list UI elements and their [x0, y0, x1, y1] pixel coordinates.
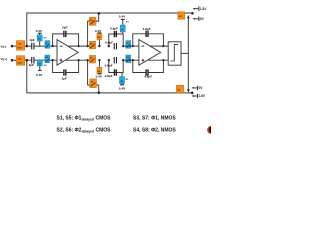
wire S5a right stub up to top rail — [96, 13, 99, 21]
svg-text:1.8V: 1.8V — [200, 7, 207, 11]
wire branch split bottom — [109, 60, 123, 72]
svg-text:0.8pF: 0.8pF — [105, 74, 113, 78]
node dot output top — [191, 12, 194, 15]
wire A2 top feedback loop — [133, 34, 146, 46]
switch S8a series NMOS on rail2 — [45, 55, 50, 63]
arrowhead down at bottom node — [187, 89, 190, 92]
power 0.4V terminal bottom-left — [38, 69, 42, 71]
switch S6a series CMOS on rail1 — [89, 41, 95, 49]
wire S5b right stub down to bottom rail — [97, 85, 99, 93]
node dot loop2 bottom right — [162, 59, 164, 61]
switch S2 (CMOS, phi2d) — [16, 56, 25, 66]
decorative corner blob — [207, 126, 215, 134]
svg-text:4pF: 4pF — [29, 38, 35, 42]
node dot loop2 bottom left — [132, 59, 134, 61]
node B junction dot (bottom input node) — [26, 59, 29, 62]
wire A1 out- to stage2 — [66, 59, 89, 61]
annotation arrow 1.8V top — [193, 7, 208, 11]
node dot output bottom — [191, 92, 194, 95]
switch to 0.4V mid top (CMOS) — [97, 33, 102, 46]
svg-text:0.8pF: 0.8pF — [105, 41, 113, 45]
power 0.4V terminal mid bottom — [97, 73, 101, 75]
capacitor 0.8pF on rail2 — [114, 57, 116, 63]
arrowhead up at top node — [187, 15, 190, 18]
svg-text:4pF: 4pF — [29, 63, 35, 67]
switch S5 DAC top (CMOS) — [178, 12, 185, 20]
switch S1 (CMOS, phi1d) — [16, 41, 25, 51]
svg-text:0.4V: 0.4V — [95, 29, 102, 33]
wire S5b left stub up to rail2 — [88, 60, 90, 85]
node dot loop1 bottom right — [77, 59, 79, 61]
wire A2 bottom feedback loop — [133, 60, 146, 72]
annotation arrow 1.8V bottom — [191, 94, 206, 98]
wire A2 out+ to comparator — [150, 45, 169, 47]
svg-text:2pF: 2pF — [62, 25, 68, 29]
svg-text:0.4V: 0.4V — [36, 73, 43, 77]
node dot rail1 at x86.6 — [86, 45, 88, 47]
power 0.4V terminal bottom mid — [120, 84, 124, 86]
wire A2 out- to comparator — [148, 59, 168, 61]
svg-text:1.8V: 1.8V — [199, 94, 206, 98]
node VI(-) input dot — [11, 45, 14, 48]
node dot rail2 at x99.4 — [98, 59, 100, 61]
switch S6 DAC bottom (CMOS) — [176, 85, 184, 93]
wire comparator output — [181, 52, 188, 54]
svg-text:4.8pF: 4.8pF — [144, 74, 152, 78]
switch S4 (NMOS, phi2, to 0.4V) — [37, 60, 42, 70]
capacitor 2pF top integrating cap — [64, 31, 66, 37]
switch S8b (NMOS to 0.4V, bottom mid) — [120, 73, 125, 85]
svg-text:0.4V: 0.4V — [36, 29, 43, 33]
node dot branch split rail2 left — [108, 59, 110, 61]
svg-text:0.4V: 0.4V — [119, 86, 126, 90]
power 0.4V terminal top mid — [121, 18, 125, 20]
wire A1 out+ to stage2 — [68, 45, 90, 47]
wire A1 bottom feedback loop — [53, 60, 64, 72]
node dot loop1 top left — [51, 45, 53, 47]
node dot branch rejoin rail1 right — [122, 45, 124, 47]
svg-text:Φ2d: Φ2d — [18, 62, 23, 65]
capacitor 0.8pF on rail1 — [114, 43, 116, 49]
switch to 0.4V mid bottom (CMOS) — [97, 60, 102, 74]
capacitor 4pF bottom sampling cap — [32, 57, 34, 64]
switch S7a series NMOS on rail1 — [45, 41, 50, 49]
wire rail1 S1 to opamp A1 — [25, 45, 57, 47]
op-amp A1 — [57, 40, 78, 66]
svg-text:Φ1d: Φ1d — [18, 47, 23, 50]
capacitor 4pF top sampling cap — [32, 43, 34, 50]
capacitor 2pF bottom integrating cap — [64, 69, 66, 75]
power 0.4V terminal top-left — [38, 32, 42, 34]
svg-text:VI(-): VI(-) — [1, 44, 7, 49]
node dot branch split rail1 left — [108, 45, 110, 47]
capacitor 4.8pF top — [146, 31, 148, 37]
node dot loop2 top right — [162, 45, 164, 47]
wire VI(+) to S2 — [12, 59, 16, 61]
switch series NMOS stage2 rail1 — [126, 41, 131, 49]
wire bottom feedback rail y=92.9 — [27, 60, 192, 93]
switch S7b (NMOS to 0.4V, top mid) — [120, 19, 125, 34]
wire output feedback vertical — [187, 17, 189, 92]
wire A1 top feedback loop — [53, 34, 64, 46]
annotation arrow 0V top — [193, 17, 205, 21]
comparator U3 (latch box) — [168, 42, 181, 65]
switch S5a (CMOS) stage1 output to top rail branch — [89, 17, 96, 25]
svg-text:VI(+): VI(+) — [1, 57, 8, 62]
switch series NMOS stage2 rail2 — [126, 55, 131, 63]
node VI(+) input dot — [11, 59, 14, 62]
switch S6b series CMOS on rail2 — [89, 55, 95, 63]
svg-text:S4, S8: Φ2, NMOS: S4, S8: Φ2, NMOS — [133, 128, 176, 134]
node A junction dot (top input node) — [26, 45, 29, 48]
wire rail2 into opamp A2 — [123, 59, 139, 61]
svg-text:0.8pF: 0.8pF — [105, 64, 113, 68]
svg-text:2pF: 2pF — [62, 77, 68, 81]
annotation arrow 0V bottom — [191, 86, 203, 90]
node dot rail1 at x99.4 — [98, 45, 100, 47]
node dot branch rejoin rail2 right — [122, 59, 124, 61]
op-amp A2 — [139, 40, 161, 66]
wire VI(-) to S1 — [12, 45, 16, 47]
power 0.4V terminal mid top — [97, 32, 101, 34]
svg-text:S3, S7: Φ1, NMOS: S3, S7: Φ1, NMOS — [133, 116, 176, 122]
node dot rail2 at x86.6 — [86, 59, 88, 61]
capacitor 0.8pF top branch — [114, 31, 116, 37]
wire top feedback rail y=13 — [27, 13, 193, 46]
capacitor 0.8pF bottom branch — [114, 69, 116, 75]
node dot top rail at x99 — [98, 12, 101, 15]
node dot loop2 top left — [132, 45, 134, 47]
wire branch split top — [109, 34, 123, 46]
wire rail2 S2 to opamp A1 — [25, 59, 57, 61]
wire rail1 into opamp A2 — [123, 45, 139, 47]
capacitor 4.8pF bottom — [146, 69, 148, 75]
svg-text:0.4V: 0.4V — [96, 74, 103, 78]
node dot loop1 top right — [77, 45, 79, 47]
node dot loop1 bottom left — [51, 59, 53, 61]
svg-text:0.4V: 0.4V — [119, 15, 126, 19]
wire S5a left stub down to rail1 — [88, 21, 90, 46]
switch S3 (NMOS, phi1, to 0.4V) — [37, 33, 42, 46]
node dot bottom rail at x99 — [98, 91, 101, 94]
svg-text:4.8pF: 4.8pF — [143, 27, 151, 31]
switch S5b (CMOS) stage1 output to bottom rail branch — [90, 79, 97, 88]
svg-text:0.8pF: 0.8pF — [110, 27, 118, 31]
